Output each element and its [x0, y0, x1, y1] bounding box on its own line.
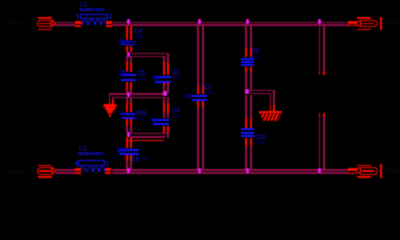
capacitor C6 pins top [163, 103, 165, 113]
wire chain B top stub [163, 61, 165, 63]
wire chain A stub below rail [126, 26, 128, 27]
inductor L2 value [78, 152, 103, 157]
ground pin red [109, 100, 111, 105]
inductor L1 body box [80, 14, 108, 20]
wire corner down into C3 branch [167, 53, 169, 62]
connector P2 (top-right) [357, 17, 371, 19]
inductor L2 label [79, 146, 87, 153]
capacitor C6 plates [153, 119, 169, 121]
wire chain A y90-93 [126, 90, 128, 93]
wire bottom rail main [112, 169, 349, 171]
inductor L1 value [79, 8, 104, 13]
capacitor C2 plates [192, 95, 207, 97]
capacitor C8 pins top [126, 137, 128, 148]
wire chain E upper [319, 26, 321, 71]
capacitor C7 pins bottom [126, 119, 128, 126]
wire top rail left segment [55, 22, 75, 24]
capacitor C2 pins top [197, 86, 199, 95]
junction chain C top rail [198, 19, 202, 24]
wire corner up from y134 into C6 branch [163, 127, 165, 134]
wire mid y134 [131, 133, 170, 135]
capacitor C9 pins bottom [245, 67, 247, 73]
wire chain A y126-133 [126, 126, 128, 132]
inductor L2 winding arcs [80, 167, 86, 172]
pin R? top [319, 71, 321, 75]
capacitor C3 pins top [163, 62, 165, 75]
junction chain B y94 [163, 91, 167, 96]
wire branch to chassis ground [250, 90, 274, 91]
capacitor C9 plates [241, 58, 255, 60]
wire chain D lower [245, 146, 247, 169]
inductor L1 winding arcs [82, 20, 89, 25]
capacitor C10 pins bottom [245, 138, 247, 146]
junction chain D bottom rail [246, 168, 250, 173]
wire chain D mid [245, 72, 247, 90]
junction chain C bottom rail [198, 168, 202, 173]
capacitor C10 label [255, 135, 266, 141]
capacitor C5 pins bottom [126, 82, 128, 91]
capacitor C4 plates [121, 41, 135, 43]
capacitor C7 plates [122, 113, 136, 115]
inductor L2 side ticks [76, 161, 77, 166]
pin R? bottom [319, 113, 321, 117]
capacitor C7 value text [119, 111, 126, 117]
ground GND1 bars [103, 104, 117, 107]
capacitor C5 plates [121, 74, 136, 76]
wire chain A to bottom rail [126, 161, 128, 169]
wire chain C lower [197, 107, 199, 170]
junction chain E top rail [318, 19, 322, 24]
wire corner down to chassis ground [273, 90, 274, 108]
wire chain B y113-118 [163, 113, 165, 118]
capacitor C4 label [135, 29, 143, 35]
capacitor C10 pins top [245, 118, 247, 128]
capacitor C8 label [132, 157, 140, 163]
net label MX1 [9, 20, 22, 27]
net label MX3 [9, 170, 22, 177]
inductor L1 pin left [75, 21, 81, 22]
inductor L2 pin left [75, 168, 81, 169]
connector P3 (bottom-left) [38, 165, 52, 167]
capacitor C10 plates [241, 128, 255, 130]
junction chain A y94 [127, 92, 131, 97]
junction chain A bottom rail [127, 168, 131, 173]
pin stub red below y134 wire [128, 140, 164, 142]
wire corner down to ground [109, 93, 111, 103]
capacitor C2 pins bottom [197, 101, 199, 106]
capacitor C6 pins bottom [163, 126, 165, 133]
wire mid y92 [109, 93, 167, 95]
inductor L2 pin right [105, 168, 112, 169]
junction chain A y54 [127, 52, 131, 57]
chassis ground hatch [259, 113, 283, 121]
connector P4 (bottom-right) [357, 165, 371, 167]
capacitor C9 pins top [245, 48, 247, 57]
wire chain B y97-103 [163, 97, 165, 103]
capacitor C7 label [136, 111, 147, 117]
capacitor C6 value text [150, 117, 158, 124]
capacitor C3 pins bottom [163, 83, 165, 85]
chassis ground bar [259, 111, 283, 114]
connector P1 (top-left) [38, 17, 52, 19]
capacitor C3 plates [155, 76, 171, 78]
wire mid y54 [131, 53, 170, 55]
pin chassis ground [270, 105, 271, 111]
inductor L1 label [80, 2, 88, 9]
wire chain E lower [319, 117, 321, 170]
inductor L1 pin right [106, 21, 112, 22]
capacitor C4 pins top [126, 26, 128, 40]
junction chain A y134 [127, 132, 131, 137]
capacitor C5 value text [118, 70, 130, 77]
capacitor C3 value text [152, 75, 160, 82]
capacitor C3 label [172, 70, 180, 76]
wire chain D upper [245, 26, 247, 48]
capacitor C7 pins top [126, 102, 128, 113]
wire chain A y56-62 [126, 56, 128, 61]
wire chain D mid2 [245, 95, 247, 119]
capacitor C4 pins bottom [126, 46, 128, 53]
capacitor C8 plates [119, 149, 139, 151]
capacitor C5 pins top [126, 62, 128, 73]
capacitor C2 label [204, 85, 212, 91]
junction chain D top rail [246, 19, 250, 24]
wire bottom rail left segment [55, 169, 75, 171]
net label MX2 [386, 20, 399, 27]
inductor L2 body box [78, 160, 105, 166]
wire chain A y97-102 [126, 97, 128, 102]
junction chain E bottom rail [318, 168, 322, 173]
wire top rail main [112, 22, 349, 24]
capacitor C4 value text [118, 39, 130, 46]
capacitor C2 value text [185, 94, 192, 100]
wire chain B y85-93 [163, 85, 165, 93]
inductor L1 side ticks [77, 14, 78, 20]
capacitor C9 label [252, 49, 260, 55]
capacitor C8 value text [116, 147, 128, 154]
junction chain D ground branch [245, 89, 249, 94]
net label MX4 [386, 169, 399, 176]
junction chain A top rail [127, 19, 131, 24]
capacitor C6 label [172, 108, 180, 114]
capacitor C5 label [138, 71, 146, 77]
capacitor C8 pins bottom [126, 155, 128, 161]
wire chain C upper [197, 26, 199, 86]
